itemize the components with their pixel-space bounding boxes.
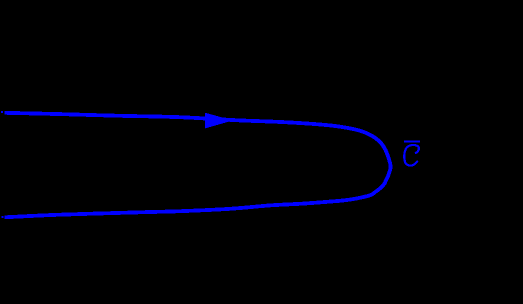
contour C-bar hairpin curve [5,113,391,218]
start dot top [1,111,3,113]
label C-bar: overbar [404,141,420,143]
arrowhead on top branch [205,113,233,129]
label C-bar: script C [404,145,419,166]
start dot bottom [2,216,4,218]
